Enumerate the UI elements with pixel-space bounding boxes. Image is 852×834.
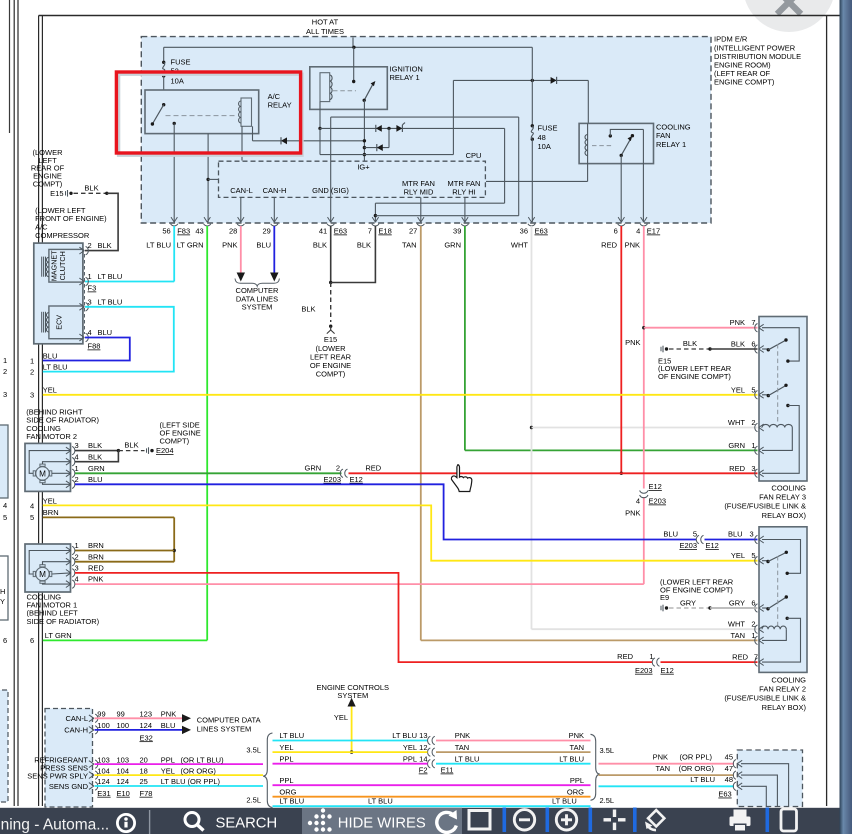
svg-text:20: 20: [140, 755, 148, 764]
svg-text:14: 14: [419, 754, 427, 763]
wire RED pin 6 down: [620, 226, 623, 475]
svg-text:3: 3: [3, 390, 7, 399]
svg-text:39: 39: [453, 227, 461, 236]
svg-text:E31: E31: [97, 789, 110, 798]
COOLING FAN RELAY 3 label: [724, 483, 806, 520]
brace left 3.5L 2.5L: [246, 733, 272, 808]
svg-text:LT BLU: LT BLU: [98, 272, 123, 281]
connector E9 stub relay 2: [660, 578, 758, 612]
svg-text:YEL: YEL: [161, 766, 175, 775]
svg-text:E12: E12: [649, 482, 662, 491]
svg-text:YEL: YEL: [43, 386, 57, 395]
svg-text:FAN RELAY 2: FAN RELAY 2: [759, 684, 806, 693]
A/C compressor box: [34, 243, 83, 344]
svg-text:43: 43: [195, 227, 203, 236]
relay COOLING FAN RELAY 3 box: [759, 317, 807, 482]
wire BLK pin 7 to ground junction: [331, 226, 376, 283]
svg-text:27: 27: [409, 227, 417, 236]
svg-text:2: 2: [75, 475, 79, 484]
toolbar phone icon: [781, 809, 797, 831]
svg-text:BLK: BLK: [84, 183, 98, 192]
svg-text:TAN: TAN: [731, 631, 745, 640]
connector E204: [147, 420, 201, 455]
svg-text:3: 3: [75, 441, 79, 450]
svg-text:FAN RELAY 3: FAN RELAY 3: [759, 492, 806, 501]
node HOT AT ALL TIMES: [306, 18, 353, 48]
svg-text:104: 104: [97, 766, 110, 775]
svg-text:99: 99: [117, 710, 125, 719]
svg-text:CLUTCH: CLUTCH: [58, 251, 67, 280]
svg-text:1: 1: [30, 356, 34, 365]
svg-text:103: 103: [117, 755, 130, 764]
svg-text:F2: F2: [419, 766, 428, 775]
connector E203 E12 on red row: [617, 652, 674, 675]
wire PPL refrigerant press sens: [95, 755, 264, 764]
svg-text:YEL: YEL: [334, 713, 348, 722]
COOLING FAN MOTOR 2 label: [26, 408, 99, 442]
svg-text:E10: E10: [117, 789, 130, 798]
svg-text:PPL: PPL: [279, 754, 293, 763]
svg-text:LT BLU: LT BLU: [368, 797, 393, 806]
svg-text:BLK: BLK: [357, 241, 371, 250]
svg-text:RED: RED: [601, 241, 617, 250]
svg-text:100: 100: [97, 721, 110, 730]
connector E203 E12 on blue row: [663, 530, 753, 551]
svg-text:RED: RED: [88, 564, 104, 573]
svg-text:4: 4: [3, 501, 7, 510]
svg-text:CAN-L: CAN-L: [230, 186, 253, 195]
svg-text:BLK: BLK: [98, 241, 112, 250]
svg-text:RLY MID: RLY MID: [404, 187, 434, 196]
svg-text:1: 1: [649, 652, 653, 661]
svg-text:BLU: BLU: [98, 328, 113, 337]
svg-text:F3: F3: [88, 284, 97, 293]
wire LT BLU row 13: [273, 731, 428, 740]
svg-text:GND (SIG): GND (SIG): [312, 186, 349, 195]
svg-text:7: 7: [368, 227, 372, 236]
wire LT BLU sens gnd: [95, 777, 264, 786]
svg-text:1: 1: [3, 356, 7, 365]
svg-text:BLK: BLK: [88, 441, 102, 450]
svg-text:PNK: PNK: [161, 710, 176, 719]
cooling fan relay 1 switch: [609, 129, 644, 157]
ECV coil: [42, 306, 83, 339]
wire CAN-L pin 28: [240, 197, 242, 222]
toolbar window icon: [469, 811, 490, 830]
svg-text:124: 124: [140, 721, 153, 730]
svg-text:(OR PPL): (OR PPL): [188, 777, 221, 786]
svg-text:LT BLU: LT BLU: [690, 775, 715, 784]
toolbar info icon: [117, 814, 134, 831]
svg-text:BRN: BRN: [43, 508, 59, 517]
previous page sheet double border: [14, 0, 18, 806]
svg-text:FUSE: FUSE: [538, 124, 558, 133]
svg-text:5: 5: [751, 385, 755, 394]
fan motor 1 internal wires: [29, 551, 70, 585]
COOLING FAN MOTOR 1 label: [27, 593, 100, 626]
svg-text:3: 3: [751, 464, 755, 473]
cooling fan motor 2: [25, 443, 71, 491]
wire PPL lower row: [273, 776, 591, 785]
fuse 52 10A: [162, 47, 191, 104]
compressor pins: [79, 241, 122, 350]
svg-text:COMPRESSOR: COMPRESSOR: [35, 231, 90, 240]
fan motor 1 pins: [66, 541, 105, 588]
svg-text:(OR LT BLU): (OR LT BLU): [181, 755, 225, 764]
svg-text:(OR ORG): (OR ORG): [679, 764, 715, 773]
sensor connector refs: [97, 789, 152, 798]
computer data lines underbrace: [235, 279, 279, 287]
svg-text:RED: RED: [365, 463, 381, 472]
wire A/C coil diode to IG+: [253, 126, 365, 144]
connector E203 E12 on green-red row: [305, 463, 382, 484]
toolbar fit icon: [604, 810, 626, 831]
wire BLK pin 41 to ground: [301, 226, 332, 322]
svg-text:E203: E203: [679, 541, 697, 550]
svg-text:124: 124: [97, 777, 110, 786]
magnet clutch: [42, 249, 83, 282]
svg-text:COOLING: COOLING: [771, 483, 806, 492]
svg-text:CAN-H: CAN-H: [263, 186, 287, 195]
relay 2 pins: [755, 535, 764, 666]
svg-text:7: 7: [751, 318, 755, 327]
svg-text:RED: RED: [729, 464, 745, 473]
svg-text:ALL TIMES: ALL TIMES: [306, 27, 344, 36]
svg-text:124: 124: [117, 777, 130, 786]
connector wire color labels: [146, 241, 640, 250]
A/C RELAY label: [268, 92, 292, 110]
svg-text:LT BLU: LT BLU: [43, 362, 68, 371]
svg-text:5: 5: [3, 513, 7, 522]
CPU pin labels: [230, 179, 480, 197]
row labels left margin: [30, 351, 72, 645]
A/C relay coil: [166, 98, 252, 126]
wire BLK fan2 pin4: [75, 451, 118, 462]
svg-text:10A: 10A: [538, 142, 551, 151]
refrigerant pressure sensor box: [45, 709, 93, 808]
highlight red box: [116, 72, 302, 155]
svg-text:4: 4: [636, 227, 640, 236]
svg-text:GRN: GRN: [728, 441, 745, 450]
svg-text:ECV: ECV: [55, 315, 64, 330]
svg-text:6: 6: [751, 599, 755, 608]
svg-text:6: 6: [751, 340, 755, 349]
svg-text:GRN: GRN: [88, 464, 105, 473]
IPDM E/R label: [714, 35, 801, 87]
toolbar separator 1: [503, 808, 507, 833]
svg-text:ORG: ORG: [279, 787, 296, 796]
svg-text:5: 5: [30, 513, 34, 522]
svg-text:LT BLU: LT BLU: [146, 241, 171, 250]
svg-text:4: 4: [75, 452, 79, 461]
wire ground loop GND: [331, 117, 519, 222]
relay 3 pin labels: [728, 318, 756, 473]
svg-text:10A: 10A: [171, 77, 184, 86]
svg-text:1: 1: [75, 464, 79, 473]
wire RED row to relay 3: [349, 472, 758, 474]
svg-text:BLU: BLU: [663, 530, 678, 539]
svg-text:CPU: CPU: [466, 151, 482, 160]
wire relay1 to pins: [621, 129, 643, 222]
svg-text:oning - Automa...: oning - Automa...: [0, 817, 109, 834]
ground E15: [310, 325, 352, 379]
svg-text:BLU: BLU: [256, 241, 271, 250]
wire PNK row 13 right: [436, 731, 591, 740]
svg-text:RELAY 1: RELAY 1: [390, 73, 420, 82]
svg-text:F83: F83: [177, 227, 190, 236]
svg-text:BLU: BLU: [728, 530, 743, 539]
relay 2 internals: [762, 540, 801, 663]
svg-text:(FUSE/FUSIBLE LINK &: (FUSE/FUSIBLE LINK &: [724, 694, 806, 703]
wire bus to cooling fan relay 1: [453, 77, 588, 124]
svg-text:25: 25: [140, 777, 148, 786]
svg-text:BLU: BLU: [43, 351, 58, 360]
svg-text:OF ENGINE COMPT): OF ENGINE COMPT): [660, 586, 733, 595]
svg-text:RELAY 1: RELAY 1: [656, 140, 686, 149]
toolbar title: [0, 817, 109, 834]
wire PNK CAN-L: [95, 710, 192, 723]
svg-text:LT BLU: LT BLU: [559, 754, 584, 763]
svg-text:1: 1: [75, 541, 79, 550]
svg-text:36: 36: [520, 227, 528, 236]
svg-text:2.5L: 2.5L: [600, 796, 615, 805]
svg-text:M: M: [39, 570, 46, 579]
svg-text:HIDE WIRES: HIDE WIRES: [338, 816, 426, 832]
svg-text:COOLING: COOLING: [771, 675, 806, 684]
svg-text:48: 48: [538, 133, 546, 142]
svg-text:RED: RED: [732, 653, 748, 662]
wire YEL sens pwr sply: [95, 766, 264, 775]
svg-text:YEL: YEL: [731, 551, 745, 560]
mouse cursor: [451, 465, 471, 492]
svg-text:2.5L: 2.5L: [246, 796, 261, 805]
svg-text:SIDE OF RADIATOR): SIDE OF RADIATOR): [27, 617, 100, 626]
toolbar separator 5: [766, 808, 770, 833]
IGNITION RELAY 1 label: [390, 65, 423, 83]
svg-text:COMPT): COMPT): [316, 370, 346, 379]
wire LT BLU pin 56 to compressor pin 1: [85, 226, 174, 282]
svg-text:RELAY: RELAY: [268, 101, 292, 110]
previous page row numbers: [3, 356, 7, 645]
svg-text:LT GRN: LT GRN: [177, 241, 204, 250]
svg-text:H: H: [0, 587, 5, 596]
svg-text:LT BLU: LT BLU: [161, 777, 186, 786]
svg-text:COMPT): COMPT): [160, 437, 190, 446]
IPDM connector pins: [162, 217, 660, 235]
svg-text:PNK: PNK: [625, 241, 640, 250]
A/C COMPRESSOR label: [35, 206, 107, 240]
svg-text:E32: E32: [140, 733, 153, 742]
scrollbar strip: [840, 0, 852, 834]
svg-text:PNK: PNK: [88, 575, 103, 584]
wire GRN pin 39 to relay 3: [465, 226, 758, 450]
toolbar zoom out icon: [514, 810, 534, 830]
svg-text:LT BLU: LT BLU: [455, 754, 480, 763]
svg-text:WHT: WHT: [511, 241, 528, 250]
wire BLK fan2 pin3 to E204: [75, 440, 145, 452]
svg-text:E203: E203: [323, 475, 341, 484]
svg-text:BRN: BRN: [88, 541, 104, 550]
wire BLU compressor pin 4 to row 1: [43, 338, 130, 361]
svg-text:IG+: IG+: [357, 162, 370, 171]
svg-text:RELAY BOX): RELAY BOX): [762, 703, 807, 712]
svg-text:3: 3: [30, 391, 34, 400]
svg-text:ORG: ORG: [567, 787, 584, 796]
wire TAN to E63 pin 47: [599, 764, 735, 775]
toolbar zoom in icon: [556, 810, 576, 830]
svg-text:BLK: BLK: [683, 339, 697, 348]
svg-text:SENS PWR SPLY: SENS PWR SPLY: [27, 771, 88, 780]
svg-text:LINES SYSTEM: LINES SYSTEM: [197, 725, 252, 734]
svg-text:6: 6: [30, 636, 34, 645]
svg-text:41: 41: [319, 227, 327, 236]
svg-text:COMPT): COMPT): [33, 180, 63, 189]
svg-text:BLU: BLU: [88, 475, 103, 484]
svg-text:SEARCH: SEARCH: [216, 816, 278, 832]
svg-text:FAN MOTOR 2: FAN MOTOR 2: [26, 432, 77, 441]
svg-text:RED: RED: [617, 652, 633, 661]
wire zener return loop: [374, 128, 505, 222]
svg-text:ENGINE COMPT): ENGINE COMPT): [714, 77, 775, 86]
svg-text:IPDM E/R: IPDM E/R: [714, 35, 748, 44]
svg-text:LT GRN: LT GRN: [45, 631, 72, 640]
svg-text:LT BLU: LT BLU: [279, 797, 304, 806]
svg-text:F88: F88: [88, 342, 101, 351]
wire BLU CAN-H: [95, 721, 192, 734]
svg-text:RLY HI: RLY HI: [452, 187, 475, 196]
svg-text:4: 4: [30, 501, 34, 510]
svg-text:SENS GND: SENS GND: [49, 782, 89, 791]
wire PNK pin 28 to computer data lines: [240, 226, 242, 273]
COOLING FAN RELAY 2 label: [724, 675, 806, 712]
cooling fan relay 1 coil: [585, 123, 612, 181]
toolbar hide wires: [308, 808, 426, 831]
svg-text:(FUSE/FUSIBLE LINK &: (FUSE/FUSIBLE LINK &: [724, 502, 806, 511]
COMPUTER DATA LINES SYSTEM label bottom: [140, 715, 261, 742]
svg-text:3: 3: [75, 564, 79, 573]
toolbar printer icon: [730, 810, 751, 831]
svg-text:47: 47: [725, 764, 733, 773]
svg-text:99: 99: [97, 710, 105, 719]
svg-text:(OR ORG): (OR ORG): [181, 766, 217, 775]
wire LT GRN pin 43 to row 6: [43, 226, 207, 640]
svg-text:GRN: GRN: [444, 241, 461, 250]
wire PNK to E63 pin 45: [599, 753, 735, 764]
svg-text:YEL: YEL: [403, 743, 417, 752]
toolbar separator 4: [633, 808, 637, 833]
connector E15 stub relay 3: [658, 339, 758, 381]
svg-text:PNK: PNK: [222, 241, 237, 250]
svg-text:E12: E12: [661, 666, 674, 675]
svg-text:1: 1: [751, 441, 755, 450]
svg-text:LT BLU: LT BLU: [392, 731, 417, 740]
svg-text:E63: E63: [535, 227, 548, 236]
close button: [743, 0, 835, 32]
wire TAN row 12 right: [436, 743, 591, 752]
svg-text:FUSE: FUSE: [171, 57, 191, 66]
svg-text:1: 1: [88, 272, 92, 281]
IPDM E/R module box: [141, 37, 711, 223]
svg-text:YEL: YEL: [43, 496, 57, 505]
svg-text:(OR PPL): (OR PPL): [679, 753, 712, 762]
svg-text:5: 5: [751, 551, 755, 560]
svg-text:48: 48: [725, 775, 733, 784]
wire GRN fan2 pin1 to connector E203: [75, 472, 342, 474]
svg-text:PNK: PNK: [569, 731, 584, 740]
svg-text:2: 2: [336, 463, 340, 472]
svg-text:E18: E18: [378, 227, 391, 236]
svg-text:5: 5: [693, 530, 697, 539]
svg-text:2: 2: [751, 418, 755, 427]
wire WHT pin 36 to relays: [530, 226, 758, 629]
svg-text:BLK: BLK: [731, 340, 745, 349]
svg-text:28: 28: [229, 227, 237, 236]
svg-text:E203: E203: [649, 497, 667, 506]
fan motor 2 internal wires: [29, 451, 70, 485]
svg-text:E11: E11: [441, 766, 454, 775]
svg-text:BLK: BLK: [88, 452, 102, 461]
wire MTR FAN RLY MID pin 27: [420, 197, 422, 222]
svg-text:PNK: PNK: [625, 338, 640, 347]
svg-text:PNK: PNK: [455, 731, 470, 740]
svg-text:COOLING: COOLING: [656, 123, 691, 132]
svg-text:SYSTEM: SYSTEM: [337, 691, 368, 700]
svg-text:GRY: GRY: [680, 598, 696, 607]
wire LT BLU bottom row: [273, 797, 591, 807]
COMPUTER DATA LINES SYSTEM label: [236, 286, 280, 311]
svg-text:WHT: WHT: [728, 620, 745, 629]
svg-text:LT BLU: LT BLU: [279, 731, 304, 740]
wire ignition coil feed: [318, 102, 321, 155]
svg-text:PNK: PNK: [730, 318, 745, 327]
svg-text:45: 45: [725, 753, 733, 762]
A/C relay switch: [151, 103, 176, 126]
wire RED fan1 pin3 to relay 2: [75, 573, 653, 662]
svg-text:100: 100: [117, 721, 130, 730]
svg-text:1: 1: [751, 631, 755, 640]
svg-text:2: 2: [3, 367, 7, 376]
svg-text:PPL: PPL: [161, 755, 175, 764]
previous page right border: [9, 0, 11, 133]
svg-text:PPL: PPL: [279, 776, 293, 785]
svg-text:BLK: BLK: [301, 305, 315, 314]
svg-text:Y: Y: [0, 597, 5, 606]
wire LT BLU compressor pin 3 to row 2: [43, 307, 174, 372]
relay 2 pin labels: [728, 551, 758, 661]
svg-text:E12: E12: [350, 475, 363, 484]
sensor box pins: [27, 714, 98, 791]
svg-text:13: 13: [419, 731, 427, 740]
svg-text:18: 18: [140, 766, 148, 775]
diode D2 row: [364, 128, 389, 151]
wire A/C relay to pin 56: [173, 123, 175, 222]
wire LT BLU to E63 pin 48: [599, 775, 735, 799]
wire TAN pin 27 to relay 2: [421, 226, 758, 640]
wire A/C relay to pin 43: [206, 134, 218, 223]
toolbar: [0, 808, 852, 834]
diode D1 and zener row: [320, 123, 505, 132]
svg-text:E17: E17: [647, 227, 660, 236]
svg-text:104: 104: [117, 766, 130, 775]
svg-text:SYSTEM: SYSTEM: [242, 303, 273, 312]
previous page component slivers: [0, 425, 8, 802]
svg-text:M: M: [39, 469, 46, 478]
toolbar search: [185, 813, 277, 832]
svg-text:3.5L: 3.5L: [600, 746, 615, 755]
svg-text:CAN-L: CAN-L: [65, 714, 88, 723]
svg-text:RELAY BOX): RELAY BOX): [762, 511, 807, 520]
svg-text:7: 7: [754, 653, 758, 662]
